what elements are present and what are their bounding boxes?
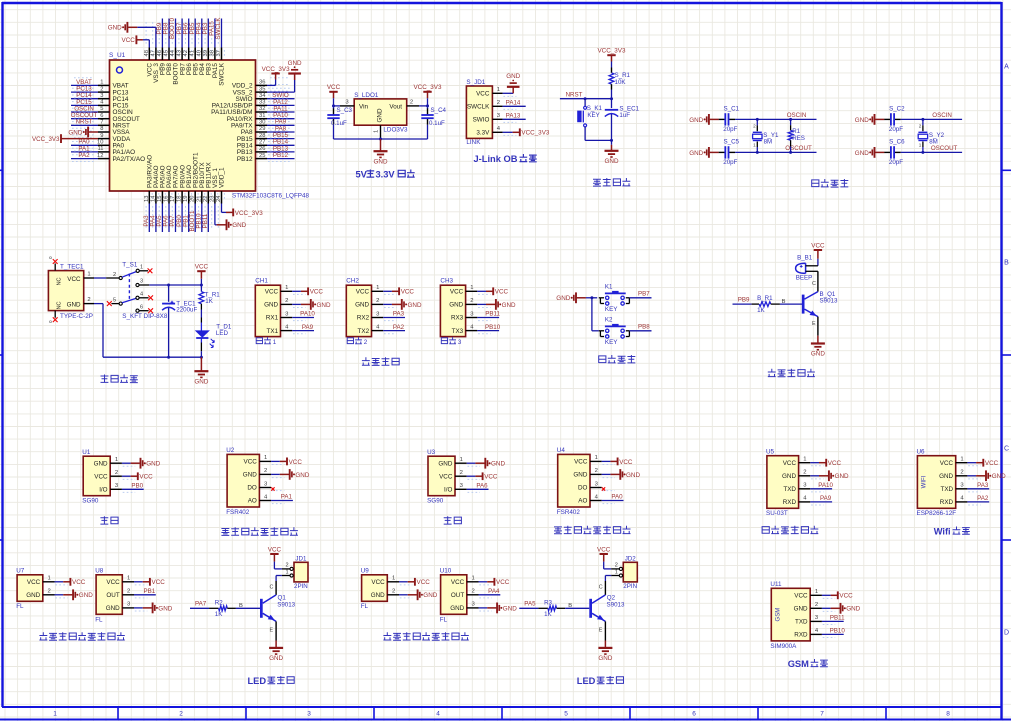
svg-text:VCC: VCC — [106, 579, 120, 586]
regulator S_LDO1 body — [354, 99, 407, 125]
module U10 pin 2 — [467, 589, 492, 598]
wire U1 VCC top — [143, 40, 149, 48]
net label PA6 — [476, 483, 488, 490]
svg-text:GND: GND — [689, 150, 703, 157]
connector CH2 comment — [347, 337, 368, 346]
svg-text:GND: GND — [232, 222, 246, 229]
svg-text:1: 1 — [392, 576, 395, 582]
power port VCC at U9 — [408, 578, 431, 586]
led T_D1 designator — [216, 323, 232, 330]
wire U9 gnd — [399, 594, 408, 596]
connector CH3 comment — [441, 337, 462, 346]
svg-text:DO: DO — [247, 485, 257, 492]
svg-text:1: 1 — [273, 339, 277, 346]
svg-text:2: 2 — [753, 124, 756, 129]
wire net PB10 — [822, 633, 844, 635]
net label PB10 — [485, 324, 501, 331]
net label B — [782, 299, 786, 305]
connector JD1 pin 2 — [282, 562, 293, 570]
net label PA9 — [820, 495, 832, 502]
svg-text:C: C — [270, 584, 274, 590]
svg-text:GND: GND — [408, 302, 422, 309]
svg-text:GND: GND — [846, 606, 860, 613]
svg-text:S_C3: S_C3 — [337, 107, 353, 114]
net label PA11 — [273, 105, 288, 112]
net label PA7 — [195, 601, 207, 608]
capacitor S_C1 — [719, 113, 735, 125]
mcu U1 pin 37 SWCLK — [216, 22, 226, 86]
svg-text:TXD: TXD — [940, 486, 953, 493]
power port VCC at U10 — [487, 578, 510, 586]
wire net NRST — [71, 124, 98, 126]
connector CH3 designator — [440, 277, 453, 284]
svg-text:TX2: TX2 — [358, 328, 370, 335]
resistor S_R1 — [609, 68, 614, 90]
svg-text:2: 2 — [285, 562, 288, 568]
resistor R2 designator — [215, 599, 223, 606]
svg-text:PA14: PA14 — [506, 100, 521, 107]
ground at Q1 — [269, 641, 283, 663]
wire JD1 pin1 to collector — [276, 576, 282, 582]
wire net PA8 — [267, 131, 295, 133]
connector CH3 pin 2 — [466, 298, 491, 307]
svg-text:2: 2 — [127, 589, 130, 595]
svg-text:44: 44 — [170, 49, 176, 56]
svg-text:1: 1 — [595, 455, 598, 461]
net label PA5 wire — [519, 607, 538, 609]
module U5 comment — [766, 510, 788, 517]
svg-text:GND: GND — [811, 351, 825, 358]
wire net PA2 — [71, 158, 98, 160]
capacitor S_C2 designator — [889, 106, 905, 113]
svg-text:1: 1 — [87, 271, 90, 277]
wire U1 VSS_3 top — [137, 27, 156, 47]
wire collector Q1 — [270, 581, 277, 595]
svg-text:LED: LED — [216, 330, 229, 337]
net label PA7 — [169, 215, 176, 227]
wire collector Q2 — [599, 581, 606, 595]
mcu U1 pin 2 PC13 — [72, 85, 129, 97]
net label PB11 — [830, 615, 845, 622]
svg-text:VCC: VCC — [476, 91, 490, 98]
svg-text:1: 1 — [460, 457, 463, 463]
wire net PA1 — [271, 500, 293, 502]
resistor T_R1 value — [205, 298, 213, 305]
svg-text:OUT: OUT — [106, 592, 119, 599]
svg-text:VCC_3V3: VCC_3V3 — [597, 48, 625, 55]
net label PA3 — [977, 482, 989, 489]
pushbutton K1 designator — [605, 284, 613, 291]
wire net PA1 — [71, 151, 98, 153]
svg-text:S_JD1: S_JD1 — [466, 79, 485, 86]
wire U3 gnd — [467, 462, 476, 464]
wire power ground rail — [103, 356, 203, 359]
transistor B_Q1 comment — [820, 298, 838, 305]
wire U11 gnd — [822, 607, 831, 609]
title buzzer circuit — [768, 369, 815, 377]
ground at S_C1 — [689, 114, 719, 125]
mcu U1 pin 40 PB4 — [196, 22, 206, 75]
svg-text:GND: GND — [264, 302, 278, 309]
pushbutton S_K1 designator — [587, 105, 603, 112]
wire U9 vcc — [399, 581, 408, 583]
wire net PA14 — [503, 105, 526, 107]
ground at U5 — [819, 470, 849, 481]
svg-text:C: C — [1004, 446, 1009, 453]
switch T_S1 pin 3 — [136, 278, 149, 286]
mcu U1 pin 30 PA9/TX — [231, 118, 292, 130]
net label PA5 — [524, 601, 536, 608]
mcu U1 pin 11 PA1/AO — [72, 144, 135, 156]
net label PA14 — [506, 100, 521, 107]
module U7 designator — [16, 568, 25, 575]
power port VCC_3V3 at S_JD1 — [513, 128, 550, 136]
capacitor S_C6 — [884, 146, 900, 158]
svg-text:S_U1: S_U1 — [109, 52, 126, 59]
module U11 pin 2 — [810, 602, 835, 611]
svg-text:8: 8 — [946, 711, 950, 718]
switch T_S1 pin 6 — [136, 304, 153, 313]
svg-text:PA5: PA5 — [524, 601, 536, 608]
resistor B_R1 designator — [757, 295, 773, 302]
svg-text:SU-03T: SU-03T — [766, 510, 788, 517]
capacitor S_C6 value — [889, 159, 903, 166]
svg-text:13: 13 — [144, 196, 150, 202]
module U4 body — [558, 454, 590, 507]
svg-text:32: 32 — [259, 106, 265, 112]
module U3 pin 2 — [455, 470, 480, 479]
mcu U1 pin 15 PA5/AO — [157, 165, 167, 229]
svg-text:2: 2 — [803, 470, 806, 476]
module U4 pin 1 — [590, 455, 615, 464]
svg-text:45: 45 — [164, 50, 170, 56]
svg-text:KEY: KEY — [605, 306, 618, 313]
connector CH3 body — [440, 285, 465, 336]
capacitor S_C5 designator — [724, 139, 740, 146]
svg-text:GND: GND — [598, 655, 612, 662]
svg-text:B_R1: B_R1 — [757, 295, 773, 302]
wire S_C4 to rail — [427, 125, 429, 139]
svg-text:GND: GND — [605, 158, 619, 165]
net label OSCIN — [74, 105, 94, 112]
title 5V to 3.3V — [356, 170, 415, 180]
connector CH2 pin 2 — [372, 298, 397, 307]
svg-text:SG90: SG90 — [82, 498, 99, 505]
mcu U1 pin 35 VSS_2 — [233, 85, 292, 97]
resistor R3 designator — [544, 599, 552, 606]
svg-text:GND: GND — [106, 605, 120, 612]
net label PA0 — [611, 494, 623, 501]
mcu U1 pin 14 PA4/AO — [150, 165, 160, 229]
wire TEC1 GND down — [94, 304, 103, 358]
capacitor S_C2 value — [889, 126, 903, 133]
wire U5 gnd — [810, 475, 819, 477]
net label PB13 — [273, 145, 289, 152]
svg-text:BEEP: BEEP — [796, 275, 813, 282]
svg-text:14: 14 — [150, 195, 156, 202]
svg-text:20: 20 — [190, 196, 196, 202]
mcu U1 pin 7 NRST — [72, 118, 130, 130]
svg-text:GND: GND — [835, 473, 849, 480]
svg-text:20pF: 20pF — [889, 126, 903, 133]
svg-text:GND: GND — [556, 295, 570, 302]
wire net OSCOUT — [735, 151, 816, 154]
wire net PB8 — [629, 330, 651, 332]
svg-text:RX1: RX1 — [266, 315, 279, 322]
mcu U1 pin 34 SWIO — [235, 91, 292, 103]
svg-text:PB10: PB10 — [485, 324, 501, 331]
buzzer B_B1 — [796, 263, 818, 273]
svg-text:17: 17 — [170, 196, 176, 202]
svg-text:1: 1 — [815, 589, 818, 595]
svg-text:PA7: PA7 — [195, 601, 207, 608]
net label PB5 — [189, 22, 196, 34]
connector CH2 pin 4 — [372, 324, 397, 333]
mcu U1 pin 19 PB1/AO — [183, 165, 193, 229]
buzzer B_B1 comment — [796, 275, 813, 282]
svg-text:23: 23 — [209, 196, 215, 202]
svg-text:RX3: RX3 — [451, 315, 464, 322]
svg-text:Wifi: Wifi — [934, 527, 951, 537]
svg-text:KEY: KEY — [605, 339, 618, 346]
title GSM module — [788, 659, 828, 669]
power port VCC at U5 — [819, 459, 842, 467]
wire net PB10 — [477, 330, 499, 332]
svg-text:2: 2 — [285, 298, 288, 304]
switch T_S1 linkage — [128, 274, 130, 301]
connector S_JD1 designator — [466, 79, 485, 86]
svg-text:GND: GND — [94, 460, 108, 467]
wire emitter Q2 — [599, 621, 606, 640]
svg-text:C: C — [599, 584, 603, 590]
connector CH2 body — [346, 285, 371, 336]
module U7 comment — [16, 603, 24, 610]
net label PA10 — [818, 482, 833, 489]
power port VCC at CH1 — [301, 287, 324, 295]
svg-text:STM32F103C8T6_LQFP48: STM32F103C8T6_LQFP48 — [232, 192, 309, 199]
svg-text:KEY: KEY — [587, 112, 599, 119]
crystal S_Y1 — [753, 119, 762, 152]
wire net OSCIN — [71, 111, 98, 113]
svg-text:PA2: PA2 — [977, 495, 989, 502]
connector CH1 pin 1 — [281, 285, 306, 294]
resistor S_R1 designator — [615, 72, 631, 79]
svg-text:VCC: VCC — [27, 579, 41, 586]
svg-text:GSM: GSM — [788, 659, 809, 669]
wire net PB1 — [134, 594, 156, 596]
mcu U1 pin 41 PB5 — [190, 22, 200, 75]
module U3 pin 1 — [455, 457, 480, 466]
connector CH2 pin 1 — [372, 285, 397, 294]
svg-text:GND: GND — [377, 108, 384, 122]
module U11 pin 1 — [810, 589, 835, 598]
wire net PB8 — [168, 19, 170, 48]
svg-text:GND: GND — [371, 592, 385, 599]
svg-text:LED: LED — [248, 676, 267, 686]
svg-text:PB1: PB1 — [143, 588, 155, 595]
svg-text:PA10: PA10 — [818, 482, 833, 489]
wire net PA2 — [383, 330, 405, 332]
ground at U1 VSS_1 — [217, 219, 247, 230]
svg-text:2: 2 — [364, 339, 368, 346]
power port VCC at LDO input — [327, 84, 341, 98]
ldo pin 3 — [340, 99, 354, 106]
svg-text:2: 2 — [264, 468, 267, 474]
svg-text:ESP8266-12F: ESP8266-12F — [917, 510, 957, 517]
svg-text:PA6: PA6 — [476, 483, 488, 490]
svg-text:2: 2 — [392, 589, 395, 595]
svg-text:U5: U5 — [766, 449, 775, 456]
svg-text:VCC: VCC — [450, 289, 464, 296]
svg-text:U10: U10 — [440, 568, 452, 575]
svg-text:VCC: VCC — [597, 546, 611, 553]
svg-text:7: 7 — [100, 120, 103, 126]
net label BOOT0 — [169, 17, 176, 39]
wire net PA9 — [810, 501, 832, 503]
svg-text:SWCLK: SWCLK — [467, 104, 490, 111]
svg-text:20pF: 20pF — [723, 159, 737, 166]
svg-text:GND: GND — [689, 117, 703, 124]
svg-text:PB8: PB8 — [638, 324, 650, 331]
svg-text:VCC_3V3: VCC_3V3 — [235, 210, 263, 217]
module U10 designator — [440, 568, 452, 575]
net label PB12 — [273, 152, 289, 159]
module U2 pin 4 — [259, 494, 284, 503]
capacitor S_C1 value — [723, 126, 737, 133]
svg-text:VCC_3V3: VCC_3V3 — [262, 66, 290, 73]
power port VCC_3V3 at LDO output — [413, 84, 441, 98]
wire net PB11 — [822, 620, 844, 622]
connector S_JD1 comment — [466, 139, 481, 146]
wire net PB9 — [161, 19, 163, 48]
connector T_TEC1 top NC pin — [48, 256, 58, 271]
svg-text:18: 18 — [177, 196, 183, 202]
svg-text:PA2/TX/AO: PA2/TX/AO — [113, 156, 146, 163]
module U8 pin 3 — [122, 602, 147, 611]
net label PB0 — [131, 483, 143, 490]
title power circuit — [101, 375, 138, 383]
svg-text:J-Link OB: J-Link OB — [474, 154, 518, 164]
module U6 comment — [917, 510, 957, 517]
svg-text:1: 1 — [374, 130, 380, 133]
svg-text:PB12: PB12 — [237, 156, 253, 163]
svg-text:Vout: Vout — [389, 103, 402, 110]
power port VCC at CH2 — [392, 287, 415, 295]
svg-text:VCC: VCC — [496, 579, 510, 586]
net label PA7 wire — [190, 607, 209, 609]
svg-text:VCC: VCC — [289, 459, 303, 466]
svg-text:FL: FL — [440, 616, 448, 623]
wire net PB10 — [201, 204, 203, 233]
wire net PC13 — [71, 91, 98, 93]
module U1 pin 3 — [110, 483, 135, 492]
ground below LDO — [374, 139, 388, 165]
power port VCC_3V3 at U1 VDDA — [32, 134, 98, 143]
svg-text:28: 28 — [259, 133, 265, 139]
module U11 comment — [770, 643, 797, 650]
svg-text:K2: K2 — [605, 317, 613, 324]
svg-text:SWCLK: SWCLK — [219, 62, 226, 85]
power port VCC at buzzer — [811, 242, 825, 258]
svg-text:FSR402: FSR402 — [226, 509, 250, 516]
wire buzzer vcc — [817, 259, 819, 266]
wire JD1 pin1 to GND — [503, 88, 514, 94]
svg-text:26: 26 — [259, 146, 265, 152]
connector S_JD1 body — [466, 86, 492, 138]
svg-text:0: 0 — [48, 320, 53, 323]
svg-text:3: 3 — [100, 93, 103, 99]
capacitor S_EC1 designator — [619, 106, 639, 113]
wire LDO pin3 branch — [334, 105, 341, 107]
capacitor S_C4 designator — [431, 107, 447, 114]
mcu U1 pin 24 VDD_1 — [216, 167, 226, 229]
crystal S_Y1 designator — [763, 132, 779, 139]
title reset circuit — [593, 178, 630, 186]
svg-text:VCC: VCC — [72, 579, 86, 586]
switch T_S1 designator — [122, 261, 138, 268]
mcu U1 pin 18 PB0/AO — [177, 165, 187, 229]
net label PB0 — [176, 215, 183, 227]
wire S_C3 to rail — [333, 125, 335, 139]
svg-text:41: 41 — [190, 50, 196, 56]
svg-text:VCC: VCC — [495, 289, 509, 296]
mcu U1 pin 44 BOOT0 — [170, 22, 180, 85]
svg-text:FL: FL — [16, 603, 24, 610]
power port VCC_3V3 at U1 VDD_1 — [226, 209, 263, 217]
wire CH2 VCC — [383, 290, 392, 292]
svg-text:2: 2 — [410, 99, 413, 105]
svg-text:AO: AO — [578, 498, 587, 505]
svg-text:2: 2 — [471, 589, 474, 595]
wire net PA10 — [292, 317, 314, 319]
net label PB7 — [176, 22, 183, 34]
module U8 body — [96, 575, 122, 615]
svg-text:15: 15 — [157, 196, 163, 202]
wire net PB6 — [188, 19, 190, 48]
svg-text:DO: DO — [578, 485, 588, 492]
ground at U6 — [976, 470, 1006, 481]
svg-text:PA2: PA2 — [393, 324, 405, 331]
svg-text:PA13: PA13 — [506, 113, 521, 120]
resistor R3 — [538, 606, 565, 611]
svg-text:43: 43 — [177, 50, 183, 56]
module U8 designator — [95, 568, 104, 575]
wire base Q1 — [236, 607, 260, 609]
svg-text:16: 16 — [164, 196, 170, 202]
svg-text:2PIN: 2PIN — [623, 583, 637, 590]
connector CH2 pin 3 — [372, 311, 397, 320]
net label PB15 — [273, 132, 289, 139]
mcu U1 pin 3 PC14 — [72, 91, 129, 103]
svg-text:VCC: VCC — [484, 474, 498, 481]
svg-text:E: E — [599, 628, 603, 634]
svg-text:1: 1 — [140, 264, 143, 270]
svg-text:JD2: JD2 — [625, 556, 637, 563]
ground at S_C2 — [855, 114, 885, 125]
border zone ticks right — [0, 170, 1011, 540]
wire net PB0 — [181, 204, 183, 233]
svg-text:GND: GND — [939, 473, 953, 480]
wire net PB4 — [201, 19, 203, 48]
svg-text:4: 4 — [436, 711, 440, 718]
connector JD2 pin 2 — [611, 562, 622, 570]
svg-text:2PIN: 2PIN — [294, 583, 308, 590]
svg-text:OSCOUT: OSCOUT — [931, 145, 958, 152]
svg-text:GND: GND — [243, 472, 257, 479]
ground at U1 VSS_2 — [288, 60, 302, 80]
svg-text:1: 1 — [285, 285, 288, 291]
wire U4 gnd — [602, 473, 611, 475]
